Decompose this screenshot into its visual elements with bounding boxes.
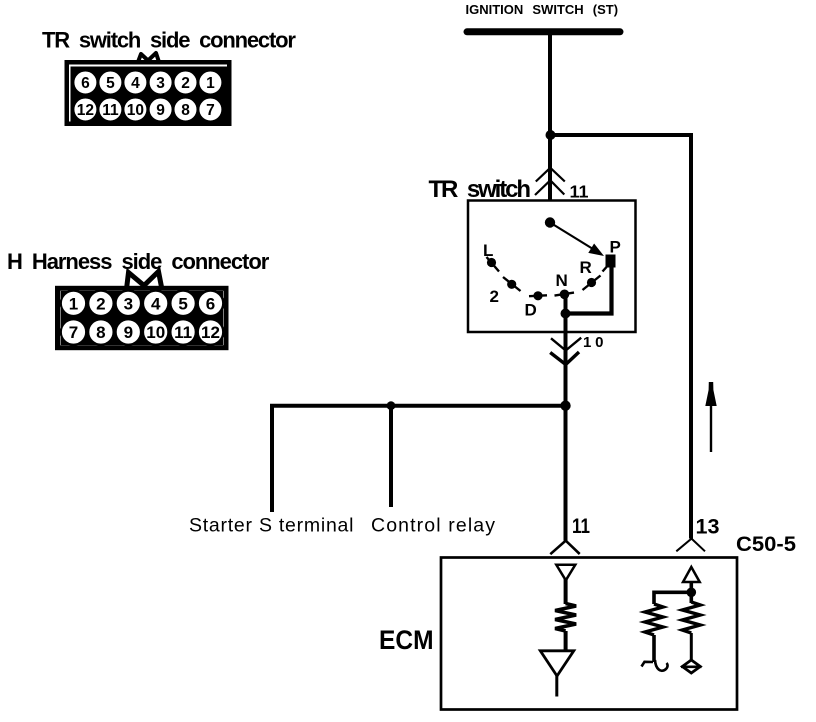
svg-text:4: 4 [131, 75, 140, 92]
wire entry arrow (double chevron up) at TR switch pin 11 [535, 168, 565, 195]
TR switch box [468, 201, 636, 333]
TR connector pin 6 [73, 71, 97, 95]
contact D (dot with tangent stroke) [529, 291, 547, 300]
node B: main junction to starter branch [560, 401, 570, 411]
TR connector outer shell [67, 62, 230, 124]
svg-text:ECM: ECM [379, 625, 434, 655]
svg-text:11: 11 [572, 515, 590, 538]
connector chevron at ECM pin 13 [676, 539, 705, 552]
TR connector pin 8 [174, 98, 198, 122]
svg-text:Starter S terminal: Starter S terminal [189, 515, 354, 537]
wire: right riser down to ECM pin 13 [689, 133, 693, 539]
wire: resistor R3 down to diamond terminal [690, 633, 693, 661]
contact P (solid block) [603, 255, 616, 272]
TR connector pin 4 [123, 71, 147, 95]
wire: node C across and down to resistor R2 [654, 592, 691, 604]
svg-text:6: 6 [81, 75, 90, 92]
harness connector pin 9 [116, 319, 141, 344]
wire: triangle to node C [689, 582, 693, 596]
harness connector cavity (hatched area) [61, 291, 224, 345]
svg-text:11: 11 [174, 323, 192, 342]
resistor R2 (left, to sensor pigtail) [645, 604, 663, 635]
svg-text:12: 12 [77, 102, 94, 119]
svg-text:3: 3 [124, 294, 133, 313]
wire: branch from node A to right riser [550, 133, 691, 137]
flow direction arrow (up) beside right riser [705, 382, 716, 452]
contact N (dot with tangent stroke) [555, 290, 575, 300]
svg-text:H Harness side connector: H Harness side connector [7, 249, 270, 274]
TR connector pin 5 [98, 71, 122, 95]
svg-text:4: 4 [151, 294, 161, 313]
small open triangle (buffer input) on ECM pin 11 branch [556, 565, 575, 581]
wire: main run from node B down to ECM pin 11 [564, 406, 568, 541]
harness connector pin 7 [61, 319, 86, 344]
wire: resistor R1 to output triangle [564, 631, 568, 652]
svg-text:D: D [525, 301, 537, 320]
harness connector pin 8 [88, 319, 113, 344]
svg-text:2: 2 [490, 287, 499, 306]
TR connector pin 2 [174, 71, 198, 95]
node A: junction of feed and branch to pin 13 [546, 130, 556, 140]
resistor R1 (pull-down in ECM pin 11 path) [555, 604, 576, 632]
harness connector pin 6 [198, 291, 223, 316]
TR connector pin 3 [149, 71, 173, 95]
TR connector pin 9 [149, 98, 173, 122]
TR connector pin 11 [98, 98, 122, 122]
svg-text:1: 1 [69, 294, 78, 313]
ECM box [441, 558, 737, 710]
svg-text:11: 11 [102, 102, 119, 119]
svg-text:TR switch: TR switch [429, 176, 531, 203]
svg-text:5: 5 [106, 75, 115, 92]
wire: ignition switch feed down to node A [548, 33, 552, 223]
svg-text:R: R [580, 258, 592, 277]
svg-text:P: P [610, 237, 621, 256]
diamond terminal symbol on R3 branch [681, 660, 702, 673]
harness connector pin 3 [116, 291, 141, 316]
harness connector outer shell [58, 288, 227, 347]
harness connector pin 12 [198, 319, 223, 344]
connector chevron at ECM pin 11 [550, 541, 579, 555]
svg-text:3: 3 [156, 75, 165, 92]
svg-text:IGNITION SWITCH (ST): IGNITION SWITCH (ST) [466, 2, 619, 17]
svg-text:11: 11 [570, 182, 589, 202]
svg-text:1: 1 [206, 75, 215, 92]
pigtail hook at end of R2 branch [642, 660, 668, 671]
node: output junction inside TR switch [561, 309, 571, 319]
wire: thick link from contact P down and across to output node [566, 264, 612, 314]
resistor R3 (right, to diamond terminal) [682, 602, 700, 633]
svg-text:TR switch side connector: TR switch side connector [42, 28, 296, 53]
svg-text:Control relay: Control relay [371, 515, 495, 537]
harness connector pin 10 [143, 319, 168, 344]
ignition switch (ST) supply bus bar [467, 28, 620, 35]
harness connector pin 5 [170, 291, 195, 316]
wire: TR switch output from contact N down through box [564, 294, 568, 405]
connector: harness side (12-pin) [58, 272, 227, 348]
svg-text:C50-5: C50-5 [736, 533, 796, 556]
wire: node C down to resistor R3 [689, 592, 693, 603]
harness connector pin 4 [143, 291, 168, 316]
svg-text:8: 8 [181, 102, 190, 119]
svg-text:7: 7 [69, 323, 78, 342]
node: control relay tap junction [387, 401, 396, 410]
contact L (dot with tangent stroke) [487, 257, 500, 272]
node C: junction of R2/R3 [687, 588, 697, 598]
node: TR switch common pole junction [545, 217, 555, 227]
svg-text:N: N [556, 271, 568, 290]
svg-text:2: 2 [96, 294, 105, 313]
wire: stub below large triangle [555, 674, 558, 697]
svg-text:2: 2 [181, 75, 190, 92]
wire exit arrow (double chevron down) at TR switch pin 10 [550, 338, 581, 365]
harness connector pin 11 [170, 319, 195, 344]
TR connector pin 12 [73, 98, 97, 122]
svg-text:6: 6 [206, 294, 215, 313]
svg-text:13: 13 [696, 516, 720, 539]
svg-text:L: L [483, 241, 493, 260]
connector: TR switch side (12-pin) [67, 53, 230, 124]
wire: triangle to resistor R1 [564, 579, 568, 604]
svg-text:10: 10 [127, 102, 144, 119]
wire: branch line to starter / control relay [272, 406, 566, 512]
svg-text:12: 12 [201, 323, 220, 342]
TR connector pin 1 [198, 71, 222, 95]
svg-text:5: 5 [178, 294, 187, 313]
svg-text:8: 8 [96, 323, 105, 342]
contact 2 (dot with tangent stroke) [503, 277, 521, 291]
TR switch wiper arm toward P [550, 223, 604, 257]
clip on harness connector [127, 272, 162, 290]
small open triangle (supply) on ECM pin 13 branch [683, 567, 700, 582]
contact R (dot with tangent stroke) [583, 276, 601, 291]
wire: resistor R2 down to pigtail [652, 635, 656, 662]
harness connector pin 2 [88, 291, 113, 316]
svg-text:9: 9 [124, 323, 133, 342]
clip on TR connector [138, 53, 159, 62]
TR connector cavity (hatched area) [71, 67, 228, 122]
svg-text:7: 7 [206, 102, 215, 119]
svg-text:10: 10 [146, 323, 165, 342]
large open triangle (to ground) on ECM pin 11 branch [540, 651, 574, 676]
svg-text:9: 9 [156, 102, 165, 119]
wire: drop to control relay [389, 406, 393, 507]
harness connector pin 1 [61, 291, 86, 316]
TR connector pin 10 [123, 98, 147, 122]
TR connector pin 7 [198, 98, 222, 122]
